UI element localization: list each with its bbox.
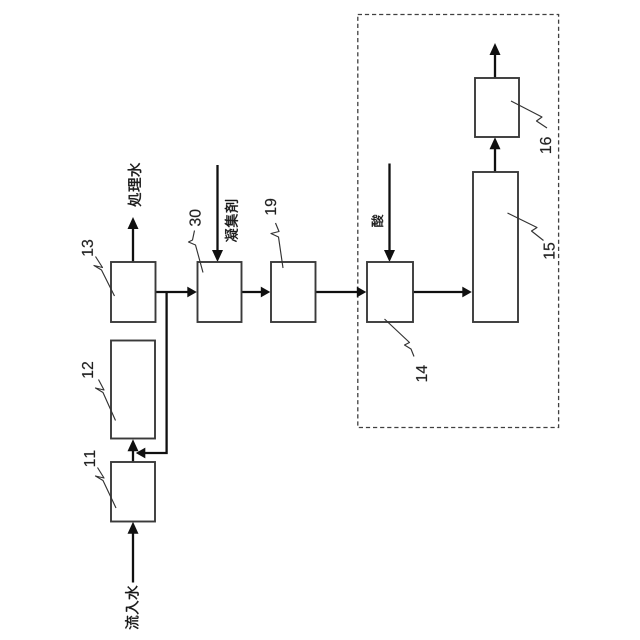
wire+arrow: acid down into box14 bbox=[388, 164, 390, 253]
label 14 bbox=[416, 365, 427, 381]
box unit 14 bbox=[367, 262, 413, 322]
box unit 11 bbox=[111, 462, 155, 522]
leader line for 12 bbox=[96, 380, 116, 421]
leader line for 11 bbox=[96, 468, 117, 509]
wire+arrow: box14 to box15 bbox=[413, 291, 463, 293]
box unit 30 bbox=[198, 262, 242, 322]
wire+arrow: box19 to box14 crossing dashed border bbox=[316, 291, 358, 293]
text 凝集剤 (coagulant) bbox=[225, 200, 238, 242]
wire+arrow: inflow into box11 bottom bbox=[132, 531, 134, 583]
label 13 bbox=[82, 240, 93, 256]
box unit 12 bbox=[111, 341, 155, 439]
arrowhead: feedback into riser bbox=[136, 448, 146, 459]
leader line for 14 bbox=[385, 319, 415, 357]
wire+arrow: box13 up to treated water bbox=[132, 227, 134, 262]
wire: main line box13 to box30 with junction bbox=[155, 291, 189, 293]
label 12 bbox=[82, 362, 93, 378]
wire+arrow: coagulant down into box30 bbox=[216, 165, 218, 253]
wire+arrow: box11 to box12 riser bbox=[132, 449, 134, 462]
arrowhead: into box30 bbox=[187, 287, 197, 298]
box unit 19 bbox=[271, 262, 316, 322]
text 酸 (acid) bbox=[371, 215, 383, 227]
wire+arrow: box16 output up bbox=[494, 53, 496, 78]
wire: feedback branch down and left to box11/12 arrow bbox=[145, 291, 167, 453]
leader line for 19 bbox=[271, 223, 283, 268]
box unit 13 bbox=[111, 262, 156, 322]
text 処理水 (treated water) bbox=[128, 163, 142, 207]
label 11 bbox=[84, 451, 95, 467]
text 流入水 (inflow water) bbox=[125, 586, 139, 630]
box unit 15 bbox=[473, 172, 518, 322]
leader line for 30 bbox=[189, 231, 204, 273]
leader line for 16 bbox=[511, 101, 547, 128]
label 30 bbox=[189, 210, 200, 226]
label 16 bbox=[540, 137, 551, 153]
dashed enclosure box (units 14,15,16 group) bbox=[358, 15, 559, 428]
leader line for 15 bbox=[508, 213, 544, 241]
label 15 bbox=[544, 243, 555, 259]
leader line for 13 bbox=[94, 257, 115, 297]
label 19 bbox=[265, 199, 276, 215]
wire+arrow: box15 up to box16 bbox=[494, 147, 496, 172]
box unit 16 bbox=[475, 78, 519, 137]
wire+arrow: box30 to box19 bbox=[242, 291, 262, 293]
